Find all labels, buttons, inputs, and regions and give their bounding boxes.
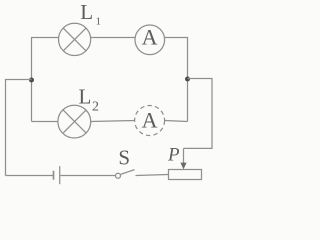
svg-text:S: S (118, 146, 130, 170)
label L1 (80, 0, 101, 28)
label P (167, 145, 180, 166)
node left junction (29, 78, 34, 83)
svg-text:2: 2 (92, 99, 99, 114)
ammeter A2 (dashed) (135, 106, 165, 136)
wire: right outer stub and vertical (184, 79, 213, 149)
label L2 (79, 85, 100, 115)
lamp L1 (59, 23, 91, 55)
wire: switch to rheostat (136, 175, 169, 176)
svg-text:A: A (142, 24, 158, 49)
battery cell (54, 166, 60, 184)
node right junction (185, 77, 190, 82)
svg-text:1: 1 (96, 16, 102, 28)
wire: bottom branch left segment (32, 121, 59, 123)
wire: battery to switch (60, 175, 115, 177)
svg-text:L: L (80, 0, 93, 24)
svg-text:L: L (79, 85, 92, 109)
ammeter A1 (135, 24, 165, 54)
svg-text:A: A (142, 107, 158, 132)
rheostat P body (169, 170, 202, 180)
wire: bottom branch middle segment (91, 121, 135, 122)
label S (118, 146, 130, 170)
wire: top branch middle segment (91, 37, 136, 39)
switch S (116, 170, 135, 179)
lamp L2 (58, 105, 91, 138)
wire: top branch left segment (32, 38, 59, 122)
wire: bottom branch right segment (165, 121, 188, 122)
svg-text:P: P (167, 145, 180, 166)
rheostat slider arrow (180, 149, 186, 170)
wire: bottom left run (6, 175, 54, 177)
wire: left outer stub and vertical (6, 80, 32, 176)
wire: top branch right segment (164, 38, 187, 122)
